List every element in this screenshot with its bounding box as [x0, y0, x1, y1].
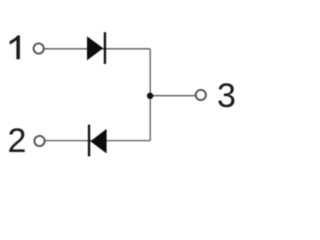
svg-text:3: 3 — [217, 77, 236, 115]
svg-text:2: 2 — [8, 122, 27, 160]
